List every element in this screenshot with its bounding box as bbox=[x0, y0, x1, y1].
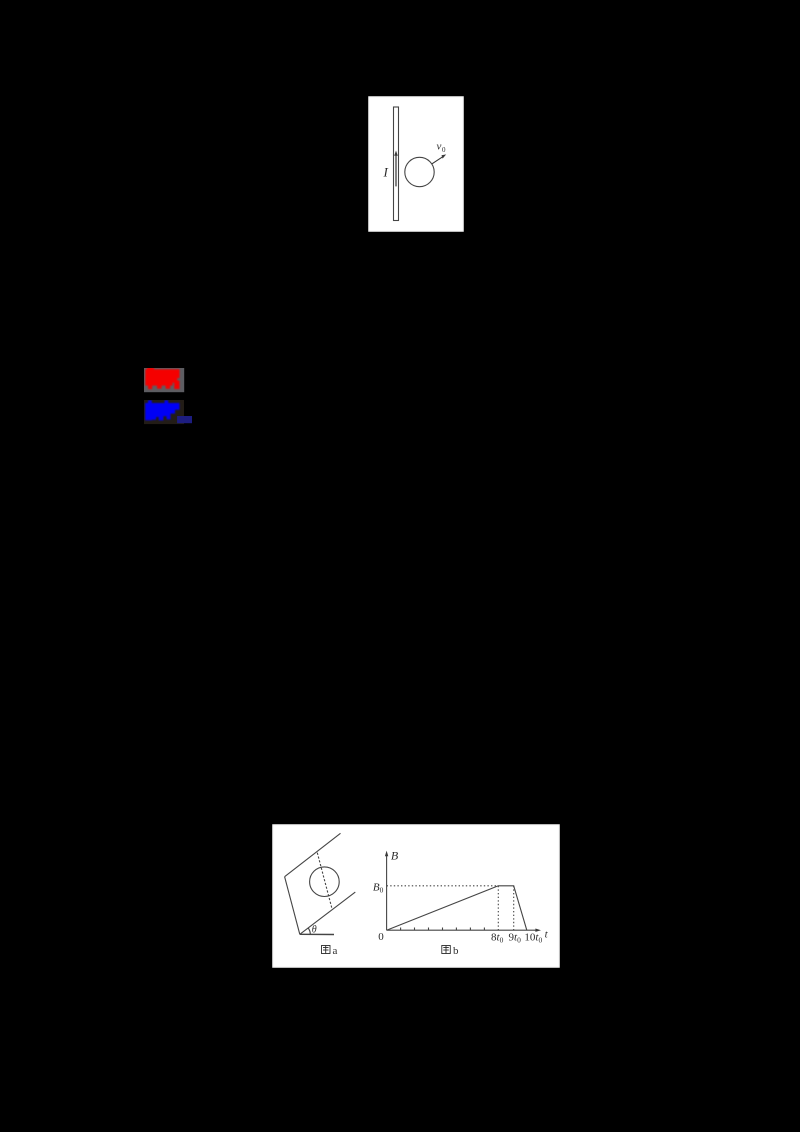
svg-text:I: I bbox=[383, 165, 389, 180]
svg-text:b: b bbox=[453, 945, 459, 957]
svg-text:B: B bbox=[391, 849, 399, 863]
svg-text:θ: θ bbox=[312, 924, 317, 935]
svg-text:v: v bbox=[437, 141, 442, 153]
svg-text:0: 0 bbox=[442, 146, 446, 154]
svg-text:a: a bbox=[333, 945, 338, 957]
svg-text:0: 0 bbox=[378, 931, 384, 943]
